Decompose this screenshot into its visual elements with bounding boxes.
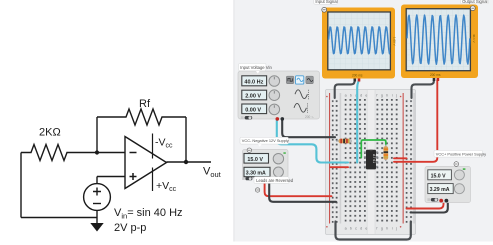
left supply current display <box>244 167 270 176</box>
wire: left vertical from 2K resistor down <box>20 153 22 218</box>
right rail red stripe <box>403 93 404 224</box>
source minus sign <box>93 203 101 205</box>
wire: left rail to pin4 row (red) <box>331 166 349 168</box>
oscilloscope 1 screen <box>328 12 391 70</box>
svg-text:Vout: Vout <box>203 166 222 180</box>
svg-text:VCC- Negative 12V Supply: VCC- Negative 12V Supply <box>242 138 289 143</box>
right supply current knob <box>454 184 464 194</box>
left supply toggle <box>242 177 245 180</box>
canvas background (Tinkercad gray area) <box>234 0 493 242</box>
op-amp minus sign (inverting input) <box>130 152 137 154</box>
wire: function generator signal (cyan) to breadboard row 13 <box>277 119 348 163</box>
op-amp positive supply pin line <box>152 168 154 192</box>
oscilloscope 2 pins <box>433 78 436 81</box>
right supply collapse button <box>454 162 459 167</box>
svg-text:A741: A741 <box>372 154 376 164</box>
oscilloscope 2 body <box>401 5 478 79</box>
left supply body <box>243 150 289 178</box>
left rail groove <box>340 93 342 224</box>
rail hole columns <box>332 100 339 223</box>
frequency knob <box>269 76 280 87</box>
tooltip: Input Voltage Vin <box>239 63 273 73</box>
right supply toggle <box>427 198 430 201</box>
amplitude knob <box>269 90 280 101</box>
left supply LED <box>283 152 285 154</box>
tooltip: Input Signal (scope 1, clipped at top) <box>314 0 338 4</box>
frequency display 40.0 Hz <box>242 76 267 86</box>
tooltip: VCC- Negative 12V Supply <box>240 137 289 146</box>
svg-text:fghij: fghij <box>376 227 400 231</box>
svg-text:15.0 V: 15.0 V <box>431 173 447 179</box>
svg-text:Input Voltage Vin: Input Voltage Vin <box>240 65 272 70</box>
oscilloscope 2 screen <box>406 9 470 71</box>
breadboard body <box>326 90 416 235</box>
left supply current knob <box>273 167 283 177</box>
svg-text:fghij: fghij <box>376 94 400 98</box>
wire: feedback green wire pin2 to resistor <box>361 140 386 158</box>
wire: scope2 ground (dark) to right rail top <box>412 80 434 98</box>
wire: scope2 signal (red) down to output row 14 <box>394 80 437 162</box>
op-amp plus sign (non-inverting input) <box>130 173 137 180</box>
ground symbol <box>90 223 103 232</box>
svg-text:+Vcc: +Vcc <box>156 180 177 193</box>
offset knob <box>269 104 280 115</box>
left rail red stripe <box>329 93 330 224</box>
wire: bottom horizontal to ground junction <box>21 217 97 219</box>
right supply LED <box>463 168 466 170</box>
svg-text:Input Signal: Input Signal <box>315 0 337 4</box>
wire: bottom ground jumper (dark U shape) <box>336 222 411 240</box>
svg-text:Rf: Rf <box>139 98 151 110</box>
wire: node to op-amp inverting input <box>97 152 125 154</box>
svg-text:abcde: abcde <box>345 227 371 231</box>
wire: feedback right vertical down to output node <box>185 117 187 162</box>
svg-text:200 ∿: 200 ∿ <box>305 115 314 119</box>
left supply voltage knob <box>273 154 283 164</box>
offset display 0.00 V <box>242 104 267 114</box>
svg-text:VCC+ Positive Power Supply: VCC+ Positive Power Supply <box>436 151 486 156</box>
svg-text:2V p-p: 2V p-p <box>114 222 146 234</box>
svg-text:Vin= sin 40 Hz: Vin= sin 40 Hz <box>114 207 183 221</box>
wire: left supply negative (black) to left rail <box>269 180 336 202</box>
svg-text:3.29 mA: 3.29 mA <box>430 187 450 193</box>
svg-text:Output Signal: Output Signal <box>462 0 487 4</box>
wire: right supply positive (red) to right rail bottom <box>407 201 444 209</box>
svg-text:0.00 V: 0.00 V <box>245 108 261 114</box>
oscilloscope 1 trace <box>329 27 390 54</box>
function generator body <box>238 71 320 119</box>
op-amp U1 triangle <box>125 137 167 189</box>
oscilloscope 1 collapse button <box>322 7 327 12</box>
svg-text:200 ms: 200 ms <box>430 73 441 77</box>
wire: op-amp output to Vout <box>167 161 212 163</box>
op-amp IC 741 chip <box>364 150 378 170</box>
main grid holes a-e <box>345 99 367 223</box>
tooltip: VCC+ Positive Power Supply <box>434 150 486 157</box>
right supply voltage knob <box>454 170 464 180</box>
svg-text:2.00 V: 2.00 V <box>245 94 261 100</box>
right supply body <box>425 167 471 203</box>
wire: feedback left vertical <box>96 117 98 153</box>
wire: non-inverting input from source <box>97 176 125 178</box>
svg-text:-Vcc: -Vcc <box>155 137 173 150</box>
left supply voltage display <box>244 154 269 164</box>
tooltip: Leads are Reversed <box>254 177 294 184</box>
bottom white strip <box>234 242 493 245</box>
amplitude display 2.00 V <box>242 90 267 100</box>
resistor R1 2K ohm (zigzag) <box>21 145 97 161</box>
oscilloscope 2 collapse button <box>470 6 475 11</box>
svg-text:40.1 V: 40.1 V <box>472 34 476 43</box>
right supply terminals <box>439 199 443 203</box>
power toggle <box>241 116 244 119</box>
wire: left supply positive (red) to left rail <box>265 180 332 196</box>
wire: scope1 probe (cyan) down to row 13 <box>357 81 359 163</box>
wire: function generator ground (black) to left rail <box>282 119 335 137</box>
node B: output junction <box>184 160 188 164</box>
main grid holes f-j <box>376 99 398 223</box>
rail corner dots <box>326 96 328 98</box>
square wave button <box>286 76 293 83</box>
right rail groove <box>413 93 415 224</box>
svg-text:40.0 Hz: 40.0 Hz <box>244 80 263 86</box>
op-amp negative supply pin line <box>152 134 154 159</box>
node A: junction of R1, Rf, inverting input <box>95 150 99 154</box>
svg-text:1.00 V: 1.00 V <box>393 37 397 46</box>
right supply voltage display <box>428 170 452 180</box>
svg-text:2KΩ: 2KΩ <box>39 127 61 139</box>
sine wave button (selected) <box>296 76 304 84</box>
resistor Rf (vertical on board) <box>384 145 389 162</box>
svg-text:200 ms: 200 ms <box>352 73 363 77</box>
right supply current display <box>428 184 453 194</box>
source plus sign <box>93 188 101 196</box>
wire: pin7 row to right rail plus (red) <box>394 157 407 159</box>
resistor R1 2K (horizontal on board) <box>336 139 352 144</box>
collapse button below left supply <box>255 188 259 192</box>
triangle wave button <box>306 76 313 83</box>
amplitude waveform icon <box>295 90 307 99</box>
offset waveform icon <box>294 103 306 112</box>
svg-text:3.30 mA: 3.30 mA <box>246 171 266 177</box>
wire: right supply negative (black) to right rail bottom <box>411 201 448 213</box>
wire: source bottom to ground <box>96 210 98 223</box>
oscilloscope 2 trace <box>407 15 470 64</box>
oscilloscope 1 body <box>322 8 395 79</box>
svg-text:Leads are Reversed: Leads are Reversed <box>256 178 294 183</box>
oscilloscope 1 pins <box>354 79 357 82</box>
wire: source top vertical <box>96 177 98 184</box>
resistor Rf (zigzag) in feedback path <box>97 109 186 125</box>
function generator terminals <box>276 117 280 121</box>
svg-text:15.0 V: 15.0 V <box>247 157 263 163</box>
wire: scope1 ground (dark) to left rail top <box>335 81 355 99</box>
left supply collapse button <box>247 148 251 152</box>
voltage source V1 (circle) <box>84 184 111 211</box>
tooltip: Output Signal (scope 2, clipped at top right) <box>461 0 489 4</box>
